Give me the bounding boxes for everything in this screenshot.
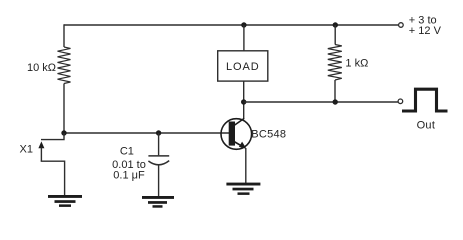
output waveform pulse symbol [402,89,448,111]
node LOAD top junction [241,22,246,27]
svg-text:BC548: BC548 [251,128,286,140]
node collector junction [241,99,246,104]
wire X1 step stub [41,133,64,140]
wire resistor R1 bottom to base node [63,84,65,134]
label 10 kOhm [27,62,56,74]
wire top supply rail [64,24,399,26]
node capacitor C1 junction [156,130,161,135]
ground under C1 [142,196,174,208]
wire supply rail to resistor 1k [334,25,336,45]
svg-text:Out: Out [417,120,436,132]
svg-text:0.1 μF: 0.1 μF [113,170,145,182]
capacitor C1 [148,156,169,165]
svg-text:LOAD: LOAD [226,61,260,73]
wire resistor 1k bottom to output rail [334,80,336,102]
svg-text:+ 12 V: + 12 V [409,25,442,37]
wire base rail to transistor [64,132,229,134]
ground under transistor [226,183,260,195]
label supply voltage [409,15,442,37]
svg-text:1 kΩ: 1 kΩ [345,58,368,70]
node 1k bottom junction [333,99,338,104]
terminal supply positive [399,23,404,28]
terminal Out [398,99,403,104]
resistor 10k [58,47,71,84]
load box LOAD [218,51,268,81]
node 1k top junction [333,22,338,27]
wire node to capacitor C1 top [158,133,160,155]
wire left vertical from rail to resistor R1 top [63,24,65,47]
svg-text:10 kΩ: 10 kΩ [27,62,56,74]
node base-left junction [61,130,66,135]
label C1 value [112,146,146,182]
ground under X1 [48,195,82,207]
label BC548 [251,128,286,140]
label 1 kOhm [345,58,368,70]
wire supply rail to LOAD [243,25,245,51]
probe X1 arrow [38,141,44,161]
wire output rail [244,101,399,103]
wire capacitor C1 bottom to ground [158,165,160,196]
wire emitter to ground [245,148,247,183]
svg-text:C1: C1 [120,146,134,158]
transistor Q1 BC548 [221,118,252,149]
wire X1 to ground [41,161,65,195]
label Out [417,120,436,132]
label X1 [20,143,33,155]
resistor 1k [328,45,342,81]
svg-text:X1: X1 [20,143,33,155]
wire LOAD bottom to collector [243,81,245,119]
